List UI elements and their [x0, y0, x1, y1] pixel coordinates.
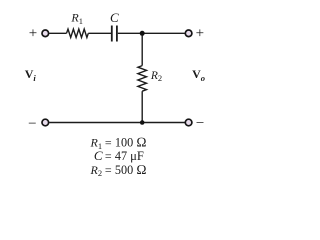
svg-text:500 Ω: 500 Ω — [115, 162, 147, 177]
svg-text:=: = — [105, 163, 112, 177]
input terminal top-left — [42, 30, 49, 37]
svg-text:−: − — [28, 116, 36, 132]
output terminal top-right — [185, 30, 192, 37]
node junction bottom — [140, 120, 145, 125]
svg-text:R2: R2 — [150, 70, 162, 83]
resistor R2 — [138, 66, 147, 92]
output terminal bottom-right — [185, 119, 192, 126]
svg-text:C: C — [94, 148, 103, 163]
wire top rail left segment — [49, 32, 66, 34]
svg-text:+: + — [196, 26, 204, 42]
svg-text:−: − — [196, 116, 204, 132]
node junction top — [140, 31, 145, 36]
resistor R1 — [67, 29, 89, 37]
wire bottom rail — [49, 122, 185, 124]
svg-text:Vi: Vi — [25, 67, 37, 83]
svg-text:=: = — [105, 149, 112, 163]
wire vertical from node to R2 — [141, 33, 143, 65]
svg-text:100 Ω: 100 Ω — [115, 135, 147, 150]
svg-text:R2: R2 — [90, 163, 103, 178]
svg-text:+: + — [29, 26, 37, 42]
capacitor C right plate — [116, 26, 118, 42]
wire between R1 and C — [88, 32, 111, 34]
wire R2 to bottom rail — [141, 91, 143, 122]
svg-text:Vo: Vo — [192, 67, 205, 83]
capacitor C left plate — [111, 26, 113, 42]
svg-text:C: C — [110, 10, 119, 25]
wire C to output terminal — [118, 32, 185, 34]
input terminal bottom-left — [42, 119, 49, 126]
svg-text:=: = — [105, 136, 112, 150]
svg-text:R1: R1 — [70, 11, 83, 26]
